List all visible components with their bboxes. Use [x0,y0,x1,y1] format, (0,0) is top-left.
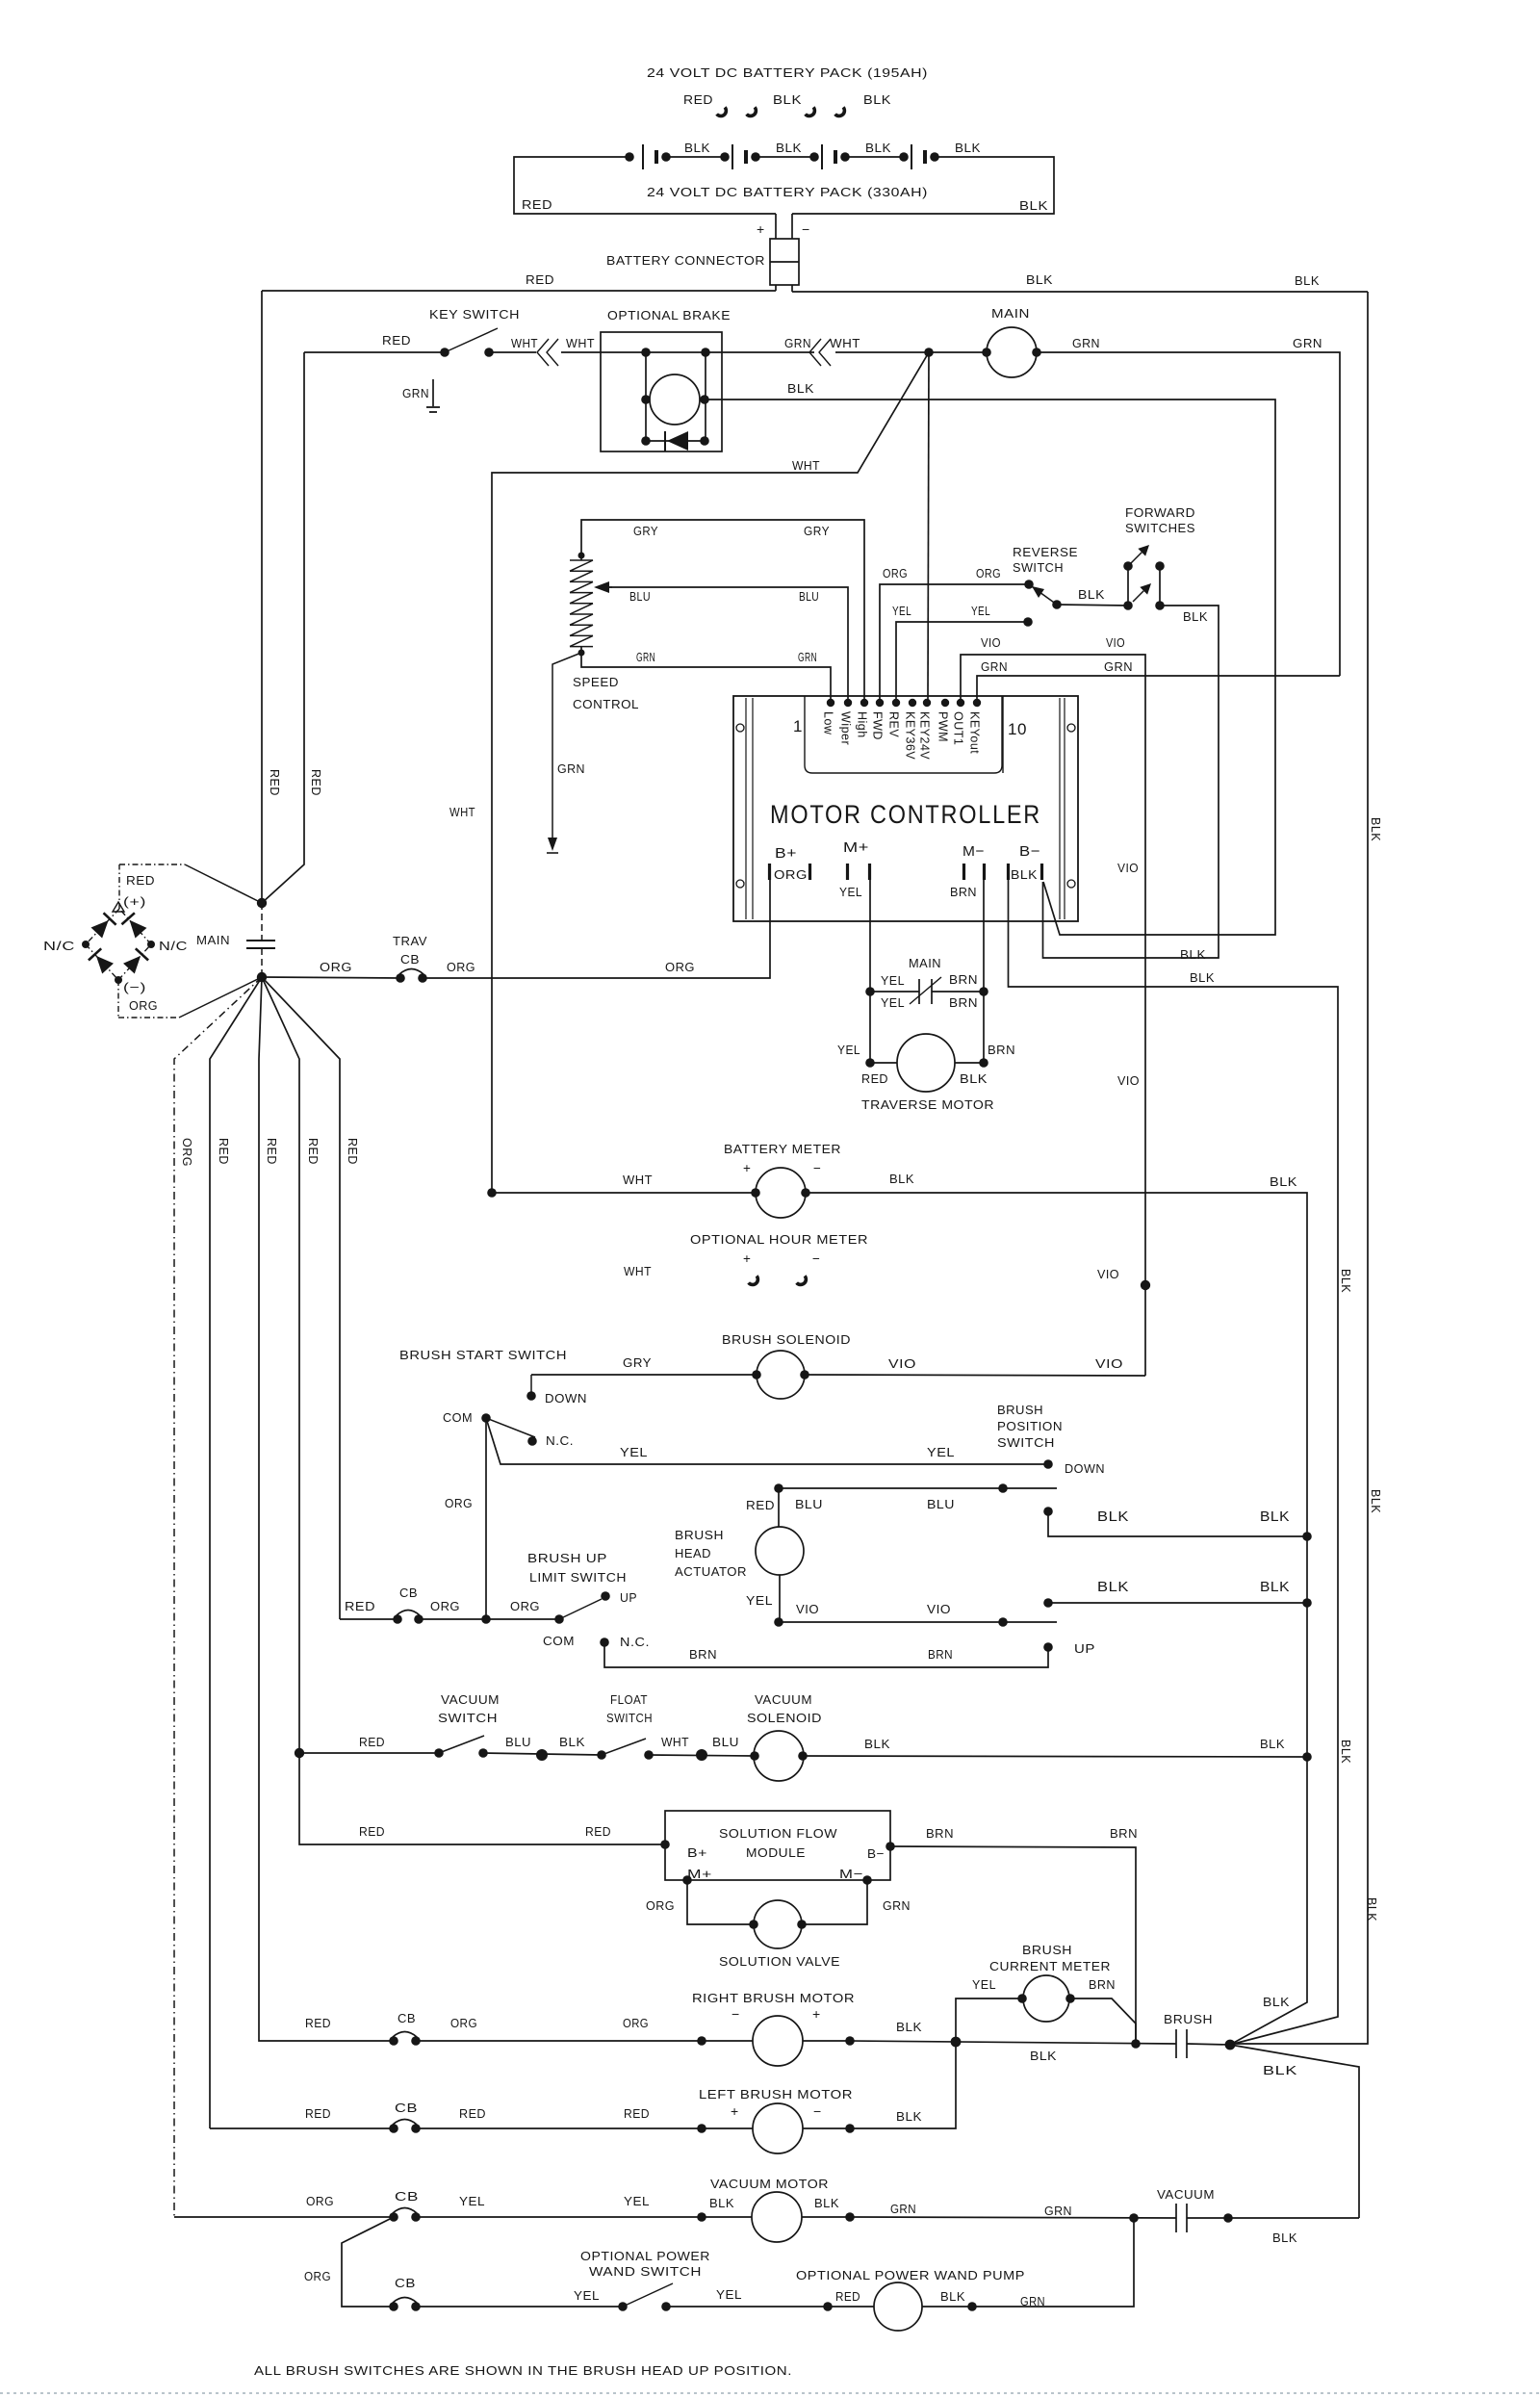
pin PWM [937,699,950,742]
wire BRN solution module B- to brush meter rail [890,1826,1138,2044]
svg-text:BLU: BLU [629,589,651,604]
svg-text:YEL: YEL [839,885,862,899]
ground GRN at key switch [402,379,440,412]
svg-text:B−: B− [867,1846,885,1861]
svg-text:ORG: ORG [774,867,808,882]
svg-text:FLOAT: FLOAT [610,1692,648,1707]
svg-text:BLK: BLK [559,1735,585,1749]
svg-text:YEL: YEL [459,2194,485,2208]
svg-text:+: + [743,1161,751,1175]
svg-text:BLK: BLK [1030,2049,1057,2063]
svg-text:CB: CB [395,2189,419,2204]
wire YEL brush start switch to position switch DOWN [486,1418,1048,1464]
rotated label RED on fan rail 3 [265,1138,278,1165]
svg-text:RED: RED [359,1735,385,1749]
battery pack enclosure (330AH pack) [514,157,1054,214]
svg-text:VIO: VIO [796,1602,819,1616]
wire BLK right outer rail [1230,292,1368,2044]
wire GRN KEYout pin to main rail [977,659,1340,703]
pin numbers 1 and 10 [793,717,1027,738]
svg-text:ORG: ORG [450,2016,477,2030]
bridge harness outline top [119,864,262,909]
svg-text:YEL: YEL [620,1445,648,1459]
bridge harness outline bottom [118,977,262,1018]
svg-text:CB: CB [395,2276,416,2290]
svg-text:YEL: YEL [881,973,905,988]
svg-text:BRN: BRN [949,995,978,1010]
svg-text:ORG: ORG [304,2269,331,2283]
brake coil legs [646,352,706,441]
svg-text:COM: COM [443,1410,473,1425]
svg-text:RED: RED [522,197,552,212]
battery connector leads + - [757,214,810,239]
svg-text:YEL: YEL [927,1445,955,1459]
brush start switch [399,1348,574,1448]
svg-text:YEL: YEL [837,1043,860,1057]
main contactor M1 [929,306,1041,377]
svg-text:MAIN: MAIN [909,956,941,970]
wire RED battery connector to left rail [262,272,776,291]
svg-text:ORG: ORG [445,1496,473,1510]
battery pack title (330AH) [647,185,928,199]
svg-text:KEYout: KEYout [968,711,982,754]
svg-text:BRN: BRN [689,1647,717,1662]
brush position switch DOWN contact [1043,1459,1105,1476]
svg-text:SWITCH: SWITCH [1013,560,1064,575]
svg-text:GRN: GRN [1020,2294,1045,2308]
svg-text:+: + [743,1251,751,1266]
svg-text:BLK: BLK [896,2109,922,2124]
svg-text:ORG: ORG [976,566,1001,580]
svg-text:24 VOLT DC BATTERY PACK (195AH: 24 VOLT DC BATTERY PACK (195AH) [647,65,928,80]
svg-text:GRY: GRY [804,524,830,538]
pin REV [887,699,901,738]
left brush motor [416,2087,855,2153]
svg-text:GRY: GRY [623,1355,652,1370]
pin Wiper [839,699,853,745]
svg-text:KEY SWITCH: KEY SWITCH [429,307,520,322]
pin OUT1 [952,699,965,746]
svg-text:GRN: GRN [402,386,429,400]
reverse switch [1013,545,1078,609]
wire ORG TRAV CB to controller B+ [447,960,695,974]
wire WHT-BLU float switch to vacuum solenoid [649,1735,755,1761]
svg-text:BLK: BLK [960,1071,988,1086]
svg-text:RED: RED [382,333,411,348]
brush position switch labels [997,1403,1063,1450]
speed control potentiometer R1 [570,553,639,712]
svg-text:WHT: WHT [511,336,538,350]
wire WHT main junction to battery meter rail [449,352,929,1193]
battery cell B3 [809,144,904,169]
svg-text:BLK: BLK [940,2289,965,2304]
svg-text:WHT: WHT [449,805,475,819]
note all brush switches [254,2363,792,2378]
svg-text:BLK: BLK [787,381,814,396]
svg-text:RIGHT BRUSH MOTOR: RIGHT BRUSH MOTOR [692,1991,855,2005]
svg-text:RED: RED [585,1824,611,1839]
wire GRN power wand pump to vacuum junction [972,2218,1134,2308]
wire ORG CB to limit switch [419,1599,559,1624]
rotated label RED on fan rail 2 [217,1138,230,1165]
TRAV circuit breaker [262,934,427,983]
brush position switch pole B BLK contact [1043,1580,1312,1608]
svg-text:ORG: ORG [306,2194,334,2208]
svg-text:RED: RED [346,1138,359,1165]
svg-text:VIO: VIO [1117,1073,1140,1088]
svg-text:BLU: BLU [799,589,819,604]
brush connector [1164,2012,1235,2058]
svg-text:ORG: ORG [129,998,158,1013]
wire RED fan to vacuum switch / solution rail [262,977,299,1841]
svg-text:GRN: GRN [1293,336,1322,350]
svg-text:BLK: BLK [1019,198,1048,213]
battery connector [606,239,799,292]
svg-text:VACUUM: VACUUM [1157,2187,1215,2202]
svg-text:BLK: BLK [1190,970,1215,985]
svg-text:BLK: BLK [1339,1269,1352,1293]
wire GRN speed control to Low pin [581,650,831,703]
brake wire through top [641,348,814,357]
svg-text:BLK: BLK [1295,273,1320,288]
svg-text:BRUSH START SWITCH: BRUSH START SWITCH [399,1348,567,1362]
svg-text:TRAV: TRAV [393,934,427,948]
svg-text:VIO: VIO [1106,635,1125,650]
svg-text:KEY36V: KEY36V [904,711,917,760]
svg-text:BLK: BLK [814,2196,839,2210]
svg-text:BRN: BRN [1110,1826,1138,1841]
battery pack lead labels RED/BLK/BLK [683,92,891,107]
terminal M- with BRN wire down [950,843,985,992]
vacuum motor [416,2177,855,2242]
svg-text:REVERSE: REVERSE [1013,545,1078,559]
svg-text:BRN: BRN [988,1043,1015,1057]
svg-text:YEL: YEL [746,1593,773,1608]
svg-text:BLU: BLU [712,1735,739,1749]
rotated labels BLK on outer rail [1365,817,1382,1921]
vacuum solenoid [747,1692,822,1781]
brush solenoid [531,1332,1145,1399]
svg-text:BLK: BLK [776,141,802,155]
svg-text:YEL: YEL [971,604,990,618]
wire RED left rail down [261,291,263,903]
svg-text:RED: RED [624,2106,650,2121]
svg-text:BLK: BLK [709,2196,734,2210]
motor controller pin header box [805,696,1003,773]
diode bridge labels [43,873,188,1013]
svg-text:+: + [731,2103,739,2119]
svg-text:BLK: BLK [889,1172,914,1186]
svg-text:ALL BRUSH SWITCHES ARE SHOWN I: ALL BRUSH SWITCHES ARE SHOWN IN THE BRUS… [254,2363,792,2378]
svg-text:B−: B− [1019,843,1040,860]
svg-text:BLU: BLU [795,1497,823,1511]
battery cell B2 [720,144,814,169]
svg-text:BLU: BLU [927,1497,955,1511]
svg-text:UP: UP [620,1590,637,1605]
svg-text:RED: RED [305,2016,331,2030]
svg-text:BLK: BLK [1272,2230,1297,2245]
svg-text:−: − [813,1161,821,1175]
svg-text:YEL: YEL [624,2194,650,2208]
svg-text:BLK: BLK [864,1737,890,1751]
svg-text:ORG: ORG [623,2016,649,2030]
svg-text:ORG: ORG [447,960,475,974]
wire WHT key switch to brake with inline connector [489,336,646,366]
node VIO hour meter tap [1141,1280,1150,1290]
battery cell B4 [899,144,939,169]
svg-text:ORG: ORG [665,960,695,974]
svg-text:WHT: WHT [830,336,860,350]
svg-text:BLK: BLK [1260,1580,1290,1595]
wire BLU-BLK vacuum switch to float switch [483,1735,602,1761]
circuit breaker left brush motor [210,2101,421,2133]
svg-text:BRUSH SOLENOID: BRUSH SOLENOID [722,1332,851,1347]
svg-text:N/C: N/C [43,939,75,953]
brush position switch pole A blade (BLU) [779,1483,1057,1511]
svg-text:GRN: GRN [557,761,585,776]
svg-text:DOWN: DOWN [545,1391,587,1405]
svg-text:M−: M− [962,843,985,860]
vacuum switch [299,1692,500,1758]
svg-text:BLK: BLK [865,141,891,155]
svg-text:BLK: BLK [863,92,891,107]
svg-text:BLK: BLK [1365,1897,1378,1921]
svg-text:M−: M− [839,1867,863,1881]
svg-text:YEL: YEL [892,604,911,618]
brush start switch DOWN contact [526,1375,587,1405]
node vacuum row tap on rail 4 [295,1748,304,1758]
right brush motor [416,1991,855,2066]
brush head actuator [675,1483,804,1627]
motor controller U1 box [733,696,1078,921]
svg-text:GRN: GRN [981,659,1008,674]
svg-text:ORG: ORG [510,1599,540,1613]
svg-text:N/C: N/C [159,939,188,953]
svg-text:CONTROL: CONTROL [573,697,639,711]
svg-text:YEL: YEL [972,1977,996,1992]
svg-text:BRN: BRN [950,885,977,899]
svg-text:MODULE: MODULE [746,1845,806,1860]
svg-text:VIO: VIO [927,1602,951,1616]
svg-text:WHT: WHT [661,1735,689,1749]
svg-text:High: High [856,711,869,738]
rotated label RED on key branch [309,769,322,796]
reverse switch ORG wire from FWD pin [880,566,1029,703]
optional power wand switch [416,2249,710,2311]
svg-text:RED: RED [345,1599,375,1613]
svg-text:SOLENOID: SOLENOID [747,1711,822,1725]
svg-text:SOLUTION VALVE: SOLUTION VALVE [719,1954,840,1969]
circuit breaker vacuum motor [174,2189,421,2222]
svg-text:COM: COM [543,1634,575,1648]
svg-text:BLK: BLK [1026,272,1053,287]
svg-text:RED: RED [459,2106,486,2121]
svg-text:BLK: BLK [1097,1509,1129,1525]
svg-text:CB: CB [399,1586,418,1600]
svg-text:BATTERY CONNECTOR: BATTERY CONNECTOR [606,253,765,268]
svg-text:BLK: BLK [1097,1580,1129,1595]
svg-text:VACUUM: VACUUM [755,1692,812,1707]
svg-text:BLK: BLK [896,2020,922,2034]
svg-text:GRN: GRN [883,1898,911,1913]
svg-text:BLK: BLK [1369,1489,1382,1513]
wire BLU wiper to Wiper pin [594,581,848,703]
pin Low [822,699,835,735]
svg-text:RED: RED [265,1138,278,1165]
solution flow module box [660,1811,895,1885]
svg-text:BRUSH: BRUSH [997,1403,1043,1417]
node main contactor top [257,898,267,908]
svg-text:FWD: FWD [871,711,885,740]
svg-text:POSITION: POSITION [997,1419,1063,1433]
wire BLK reverse switch to forward switches [1057,587,1128,606]
svg-text:CB: CB [398,2011,416,2025]
circuit breaker power wand [389,2276,421,2311]
optional brake box [601,308,731,451]
svg-text:WHT: WHT [624,1264,652,1278]
svg-text:+: + [757,221,765,237]
svg-text:UP: UP [1074,1641,1095,1656]
svg-text:ORG: ORG [320,960,352,974]
svg-text:VIO: VIO [1117,861,1139,875]
svg-text:CURRENT METER: CURRENT METER [989,1959,1111,1973]
rotated label RED on fan rail 4 [306,1138,320,1165]
svg-text:OPTIONAL POWER WAND PUMP: OPTIONAL POWER WAND PUMP [796,2268,1025,2282]
svg-text:B+: B+ [775,845,797,862]
vacuum connector [1157,2187,1359,2245]
brush junction fan BLK labels [1230,1995,1359,2218]
svg-text:BLK: BLK [1011,867,1038,882]
svg-text:RED: RED [268,769,281,796]
svg-text:−: − [731,2006,740,2022]
svg-text:REV: REV [887,711,901,737]
svg-text:BRUSH: BRUSH [1022,1943,1072,1957]
battery cell wire labels BLK [684,141,981,155]
node distribution junction [257,972,267,982]
svg-text:BLK: BLK [1260,1737,1285,1751]
rotated label RED on fan rail 5 [346,1138,359,1165]
svg-text:CB: CB [395,2101,418,2115]
svg-text:GRN: GRN [1044,2204,1072,2218]
svg-text:Wiper: Wiper [839,711,853,745]
brush position switch pole B blade (VIO) [779,1602,1057,1627]
svg-text:BRUSH UP: BRUSH UP [527,1551,607,1565]
wire ORG fan to vacuum motor CB rail [174,977,262,2217]
svg-text:LIMIT SWITCH: LIMIT SWITCH [529,1570,627,1585]
wire VIO OUT1 pin to right rail [961,635,1145,1376]
svg-text:SOLUTION FLOW: SOLUTION FLOW [719,1826,837,1841]
svg-text:RED: RED [835,2289,860,2304]
svg-text:VACUUM MOTOR: VACUUM MOTOR [710,2177,829,2191]
svg-text:RED: RED [309,769,322,796]
svg-text:BRUSH: BRUSH [675,1528,724,1542]
rotated label RED on left rail [268,769,281,796]
disconnected battery lead hooks [716,107,846,117]
svg-text:HEAD: HEAD [675,1546,711,1560]
svg-text:−: − [802,221,810,237]
brush position switch pole A BLK contact [1043,1507,1312,1541]
wire BLK left brush motor up to right brush BLK [850,2042,956,2128]
brush current meter [956,1943,1136,2044]
svg-text:GRN: GRN [636,650,655,664]
svg-text:SWITCHES: SWITCHES [1125,521,1195,535]
circuit breaker right brush motor [259,2011,421,2046]
svg-text:SPEED: SPEED [573,675,619,689]
svg-text:BLK: BLK [1078,587,1105,602]
svg-text:OPTIONAL POWER: OPTIONAL POWER [580,2249,710,2263]
svg-text:24 VOLT DC BATTERY PACK (330AH: 24 VOLT DC BATTERY PACK (330AH) [647,185,928,199]
battery cell B1 [625,144,725,169]
svg-text:VIO: VIO [1097,1267,1119,1281]
pin FWD [871,699,885,740]
wire BLK battery connector to right rail [792,272,1368,292]
svg-text:RED: RED [217,1138,230,1165]
wire RED key-switch branch down [262,352,304,903]
svg-text:WAND SWITCH: WAND SWITCH [589,2264,702,2279]
wire YEL REV pin to reverse switch NC [892,604,1033,703]
svg-text:MOTOR CONTROLLER: MOTOR CONTROLLER [770,800,1041,829]
main power contact [196,903,275,977]
svg-text:GRY: GRY [633,524,658,538]
terminal M+ with YEL wire down [839,839,870,992]
pin KEYout [968,699,982,754]
svg-text:+: + [812,2006,821,2022]
svg-text:BRN: BRN [926,1826,954,1841]
svg-text:CB: CB [400,952,420,967]
svg-text:YEL: YEL [881,995,905,1010]
main NC contact at traverse motor [865,956,988,1010]
wire BLK forward switches to B- loop (L2) [1043,606,1219,962]
svg-text:LEFT BRUSH MOTOR: LEFT BRUSH MOTOR [699,2087,853,2101]
svg-text:YEL: YEL [716,2287,742,2302]
svg-text:BRN: BRN [949,972,978,987]
svg-text:OPTIONAL HOUR METER: OPTIONAL HOUR METER [690,1232,868,1247]
svg-text:10: 10 [1008,720,1027,738]
terminal B- with BLK wires [1009,843,1042,882]
wire BLK B- loop (L3) to lower right rail [1009,880,1339,2045]
rotated label BLK on L3 rail [1339,1269,1352,1764]
svg-text:BLK: BLK [955,141,981,155]
svg-text:RED: RED [526,272,554,287]
wire GRY speed control to High pin [581,520,864,703]
wire BLK right brush motor to brush connector [850,2020,1176,2063]
svg-text:BLK: BLK [1369,817,1382,841]
svg-text:SWITCH: SWITCH [997,1435,1055,1450]
svg-text:GRN: GRN [798,650,817,664]
svg-text:RED: RED [126,873,155,888]
key switch [304,307,520,357]
svg-text:VIO: VIO [981,635,1001,650]
svg-text:OUT1: OUT1 [952,711,965,745]
svg-text:SWITCH: SWITCH [438,1711,498,1725]
svg-text:KEY24V: KEY24V [918,711,932,760]
circuit breaker brush row [340,1586,423,1624]
wire GRN main to KEYout rail [1037,336,1340,676]
svg-text:RED: RED [306,1138,320,1165]
pin High [856,699,869,738]
wire RED fan to brush-up CB rail [262,977,340,1619]
page edge dotted line [0,2392,1540,2394]
svg-text:ORG: ORG [883,566,908,580]
svg-text:N.C.: N.C. [620,1635,650,1649]
svg-text:BLK: BLK [773,92,802,107]
svg-text:GRN: GRN [784,336,811,350]
svg-text:DOWN: DOWN [1065,1461,1105,1476]
svg-text:PWM: PWM [937,711,950,742]
wire RED fan to left brush motor rail [210,977,262,2128]
battery pack title (195AH) [647,65,928,80]
traverse motor [837,992,1015,1112]
